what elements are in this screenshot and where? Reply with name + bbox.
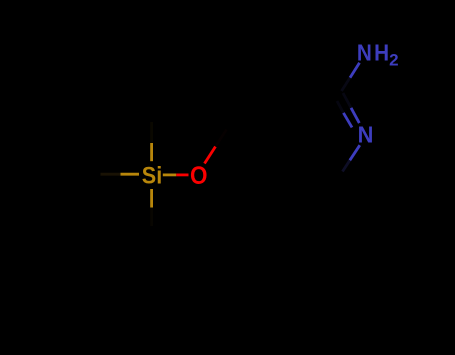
- svg-text:O: O: [190, 162, 208, 190]
- bond C2=N1 outer line (N half, blue): [351, 108, 359, 123]
- bond Si-CH3 up (Si half, olive): [150, 143, 153, 161]
- bond C2-NH2 (carbon half, near-black): [342, 78, 351, 91]
- bond Si-CH3 down (carbon half, near-black): [150, 208, 153, 227]
- bond C2=N1 outer line (carbon half, near-black): [343, 93, 351, 108]
- atom label N (ring N1): [358, 122, 374, 148]
- bond O-CH2 (carbon half, near-black): [216, 130, 227, 147]
- bond Si-CH3 left (carbon half, dark): [101, 173, 121, 176]
- svg-text:H: H: [374, 40, 389, 66]
- atom label NH2 : H: [374, 40, 389, 66]
- bond C2=N1 inner line (carbon half, near-black): [337, 101, 343, 113]
- atom label NH2 : subscript 2: [389, 51, 398, 70]
- svg-text:2: 2: [389, 51, 398, 70]
- svg-text:Si: Si: [142, 161, 162, 188]
- atom label O: [190, 162, 208, 190]
- svg-text:N: N: [358, 122, 374, 148]
- bond Si-CH3 up (carbon half, near-black): [150, 122, 153, 143]
- svg-text:N: N: [357, 40, 372, 66]
- bond N1-C6 (carbon half, faint navy): [343, 160, 350, 171]
- atom label NH2 : N: [357, 40, 372, 66]
- bond C2-NH2 (N half, blue): [350, 63, 360, 78]
- bond Si-CH3 down (Si half, olive): [150, 189, 153, 208]
- bond N1-C6 (N half, blue): [350, 145, 360, 160]
- bond Si-CH3 left (Si half, olive): [121, 173, 140, 176]
- atom label Si: [142, 161, 162, 188]
- bond Si-O (Si half, olive): [163, 173, 177, 176]
- bond Si-O (O half, red): [176, 173, 188, 176]
- bond C2=N1 inner line (N half, blue): [343, 113, 352, 128]
- bond O-CH2 (O half, red): [205, 147, 216, 164]
